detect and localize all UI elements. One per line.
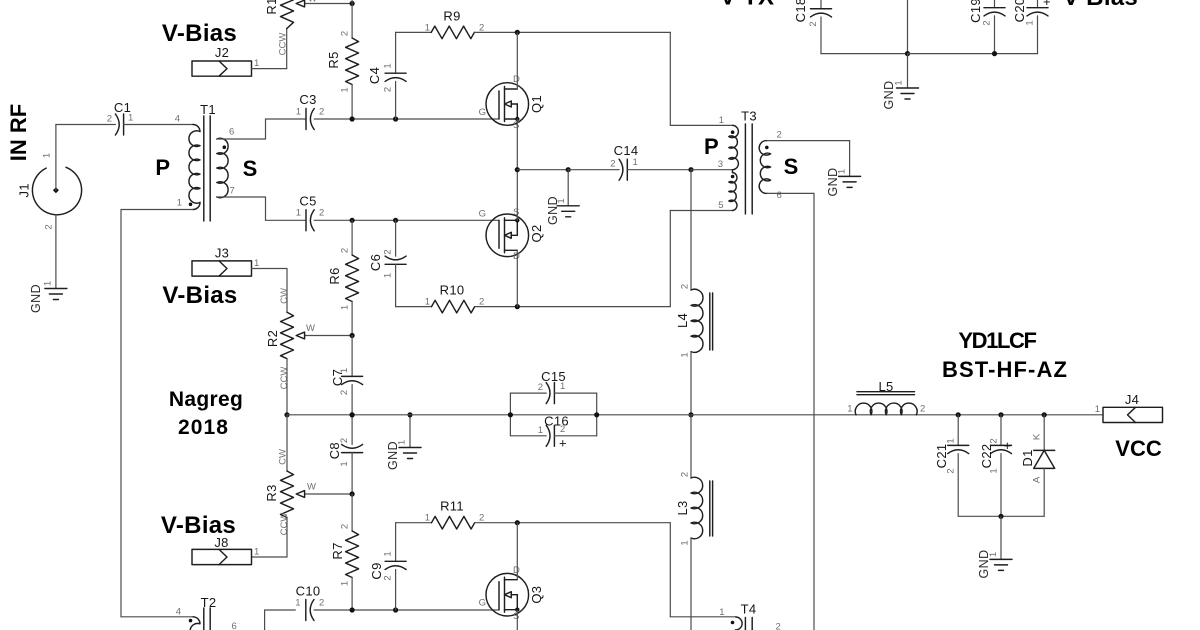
svg-text:Q2: Q2 [529,225,544,243]
wire V-TX rail [907,0,909,54]
diode D1 [1043,415,1045,451]
svg-text:Q3: Q3 [529,586,544,604]
svg-text:C8: C8 [327,442,342,459]
svg-text:+: + [559,436,567,451]
capacitor C5 [305,210,307,231]
svg-text:1: 1 [128,113,133,124]
svg-text:1: 1 [680,540,691,545]
wire T1 pin6 to C3 row [217,138,266,140]
svg-text:3: 3 [718,159,723,170]
wire T3 pin5 [670,210,732,212]
transistor Q2 (N-MOSFET, mirrored) [486,214,529,257]
svg-text:D: D [513,565,520,576]
svg-text:1: 1 [383,273,394,278]
svg-text:C3: C3 [299,92,316,107]
svg-text:2: 2 [777,130,782,141]
node C4/gate row [393,116,398,121]
svg-text:S: S [784,154,799,179]
transformer T1 primary [193,125,200,132]
svg-text:7: 7 [230,186,235,197]
svg-text:+: + [1004,438,1012,453]
wire left column down to T2 [120,210,122,617]
wire R11 row to T4 pin1 [669,523,671,617]
transformer T3 secondary [759,141,770,194]
svg-text:6: 6 [232,621,237,630]
capacitor C22 [1000,415,1002,446]
svg-text:R1: R1 [264,0,279,15]
svg-text:1: 1 [383,63,394,68]
svg-text:2: 2 [340,524,351,529]
node GND tap at bus [407,412,412,417]
svg-text:6: 6 [777,190,782,201]
transformer T1 core [203,116,205,221]
node D1 at bus [1042,412,1047,417]
svg-text:R5: R5 [326,51,341,68]
svg-text:IN RF: IN RF [6,104,31,161]
transformer T3 primary winding A [729,125,739,169]
ground GND at T3 secondary [839,175,861,177]
node R11 / Q3 drain [515,520,520,525]
svg-text:S: S [513,207,519,218]
node C19 at top bus [992,51,997,56]
wiper of R3 [305,493,352,495]
transistor Q3 (N-MOSFET) [486,573,529,616]
wire Q2 source to C14 node [516,170,518,221]
svg-text:2018: 2018 [178,416,229,439]
svg-text:R11: R11 [440,499,464,514]
wire T3 pin6 to T4 secondary [767,192,814,194]
svg-text:T1: T1 [200,102,216,117]
resistor R11 [396,522,432,524]
svg-text:D: D [513,74,520,85]
resistor R10 [396,306,432,308]
wire C14 to T3 pin3 [627,169,691,171]
node R10 / Q2 drain [515,304,520,309]
svg-text:T3: T3 [741,109,757,124]
svg-text:1: 1 [988,552,999,557]
svg-text:2: 2 [479,23,484,34]
svg-text:V-TX: V-TX [720,0,775,11]
svg-text:4: 4 [175,114,180,125]
potentiometer R1 (cropped) [281,0,294,29]
wire center tap down to L4 [690,170,692,290]
svg-text:J3: J3 [215,246,229,261]
svg-text:1: 1 [425,513,430,524]
svg-text:J8: J8 [214,535,228,550]
svg-text:GND: GND [29,284,43,313]
ground GND at J1 [45,288,67,290]
wiper of R1 [305,3,352,5]
svg-text:C22: C22 [979,444,994,469]
svg-text:2: 2 [989,438,1000,443]
svg-text:1: 1 [340,581,351,586]
svg-text:1: 1 [254,258,259,269]
svg-text:C20: C20 [1012,0,1027,22]
node C15-C16 left [508,412,513,417]
svg-text:S: S [243,156,258,181]
node L4/L3 at bus [688,412,693,417]
svg-text:2: 2 [319,107,324,118]
svg-text:C18: C18 [793,0,808,22]
svg-text:2: 2 [383,575,394,580]
svg-text:G: G [479,598,486,609]
inductor L4 [691,289,703,352]
node C6/gate row [393,218,398,223]
node C15-C16 right [594,412,599,417]
svg-text:2: 2 [610,159,615,170]
node R1 wiper / R5 top [350,1,355,6]
svg-text:C21: C21 [934,444,949,469]
transistor Q1 (N-MOSFET) [486,83,529,126]
svg-text:C10: C10 [296,584,321,599]
resistor R6 [351,220,353,255]
svg-text:2: 2 [808,21,819,26]
node R7/C10 [350,607,355,612]
transformer T1 secondary [217,138,228,197]
svg-text:2: 2 [680,472,691,477]
svg-text:2: 2 [920,404,925,415]
resistor R5 [351,4,353,39]
wire J1 pin1 to C1 [55,125,57,191]
svg-text:1: 1 [538,425,543,436]
wire midpoint to C14 [517,169,568,171]
svg-text:1: 1 [295,598,300,609]
svg-text:1: 1 [42,153,53,158]
svg-text:S: S [513,611,519,622]
svg-text:1: 1 [296,208,301,219]
svg-text:CW: CW [279,288,290,304]
svg-text:1: 1 [837,169,848,174]
svg-text:Q1: Q1 [529,95,544,113]
svg-text:2: 2 [339,390,350,395]
node C5/R6 [350,218,355,223]
capacitor C21 [957,415,959,446]
svg-text:1: 1 [946,438,957,443]
svg-text:1: 1 [254,547,259,558]
svg-text:2: 2 [560,424,565,435]
wire top bus right [908,53,1038,55]
svg-text:C19: C19 [968,0,983,23]
svg-text:1: 1 [397,440,408,445]
wire T3 pin2 to ground [767,140,850,142]
potentiometer R3 [286,415,288,471]
svg-text:2: 2 [680,284,691,289]
svg-text:2: 2 [340,31,351,36]
svg-text:G: G [479,107,486,118]
connector J1 (BNC) [32,167,81,214]
connector J4 [1103,407,1163,422]
inductor L3 [691,477,703,539]
svg-text:K: K [1032,433,1043,440]
svg-text:Nagreg: Nagreg [169,388,243,411]
svg-text:2: 2 [946,468,957,473]
capacitor C6 [395,220,397,256]
capacitor C20 [1037,0,1039,8]
svg-text:L3: L3 [675,500,690,515]
capacitor C14 [626,159,628,180]
wire C5 to Q2 gate [314,219,499,221]
svg-text:2: 2 [339,438,350,443]
capacitor C10 [264,610,266,630]
svg-text:2: 2 [982,20,993,25]
wire L4 to bus [690,352,692,415]
connector J8 [192,549,252,564]
node C8 / R3 wiper / R7 [350,491,355,496]
wire R2 bottom to bus [286,359,288,415]
svg-text:V-Bias: V-Bias [162,20,237,47]
transformer T3 core [744,124,746,214]
svg-text:1: 1 [43,281,54,286]
svg-text:W: W [308,0,317,5]
svg-text:1: 1 [425,297,430,308]
svg-text:G: G [479,209,486,220]
svg-text:2: 2 [319,598,324,609]
svg-text:1: 1 [296,107,301,118]
svg-text:1: 1 [425,23,430,34]
potentiometer R2 [281,312,294,359]
svg-text:1: 1 [254,58,259,69]
capacitor C16 [510,435,546,437]
svg-text:1: 1 [989,468,1000,473]
ground GND at bus [409,415,411,448]
wire J3 pin1 to R2 [252,268,288,270]
inductor L5 [855,403,917,415]
connector J3 [192,261,252,276]
svg-text:C5: C5 [299,194,316,209]
wire J1 pin2 to ground [55,215,57,289]
wiper of R2 [305,335,352,337]
svg-text:1: 1 [339,368,350,373]
ground GND at C22 [990,558,1012,560]
svg-text:R10: R10 [440,283,465,298]
wire C21-C22-D1 bottom [958,515,1044,517]
svg-text:V-Bias: V-Bias [162,282,237,309]
svg-text:1: 1 [340,305,351,310]
svg-text:1: 1 [894,80,905,85]
wire main VCC bus [287,414,1103,416]
transformer T4 (cropped) [736,617,743,630]
svg-text:1: 1 [1095,404,1100,415]
wire T1 pin7 to C5 row [217,196,266,198]
svg-text:S: S [513,120,519,131]
node C21 at bus [956,412,961,417]
node R2/R3 at bus [284,412,289,417]
svg-text:1: 1 [680,352,691,357]
svg-text:W: W [306,323,315,334]
svg-text:1: 1 [847,404,852,415]
svg-text:C4: C4 [367,67,382,84]
capacitor C15 (with C16 in parallel block) [509,393,511,436]
svg-text:CW: CW [278,449,289,465]
svg-text:T4: T4 [741,602,757,617]
node bottom wire to ground [998,514,1003,519]
capacitor C1 [56,124,116,126]
wire center tap to T3 pin3 [691,169,733,171]
svg-text:R9: R9 [443,9,460,24]
svg-text:1: 1 [719,607,724,618]
svg-text:2: 2 [319,208,324,219]
svg-text:2: 2 [479,297,484,308]
ground GND at top bus [907,54,909,88]
svg-text:C14: C14 [614,143,639,158]
svg-text:T2: T2 [201,595,217,610]
svg-text:J1: J1 [17,183,32,197]
wire Q3 source down [516,610,518,630]
svg-text:D1: D1 [1020,449,1035,466]
wire Q3 drain up [516,523,518,580]
node C22 at bus [998,412,1003,417]
svg-text:1: 1 [177,198,182,209]
svg-text:2: 2 [340,248,351,253]
svg-text:1: 1 [633,157,638,168]
svg-text:P: P [704,134,719,159]
ground GND at C14 node [567,170,569,206]
capacitor C9 [395,523,397,562]
svg-text:R2: R2 [265,330,280,347]
svg-text:R3: R3 [264,484,279,501]
wire bus to L3 [690,415,692,478]
wire C3 to Q1 gate [314,118,499,120]
transformer T2 (cropped) [121,616,193,618]
resistor R9 [396,31,432,33]
wire R3 bottom to J8 [286,518,288,558]
svg-text:2: 2 [44,224,55,229]
svg-text:L4: L4 [675,313,690,328]
svg-text:BST-HF-AZ: BST-HF-AZ [942,357,1068,382]
capacitor C3 [305,109,307,130]
svg-text:J2: J2 [215,45,229,60]
svg-text:CCW: CCW [279,513,290,536]
wire R10 right riser to T3 pin5 [669,211,671,307]
resistor R7 [351,494,353,531]
node C7 at bus [350,412,355,417]
svg-text:1: 1 [340,87,351,92]
svg-text:D: D [513,251,520,262]
node bus/C7-C8 [350,412,355,417]
svg-text:VCC: VCC [1115,436,1162,461]
svg-text:L5: L5 [878,379,893,394]
node R5/C3 [350,116,355,121]
transformer T3 primary winding B [732,170,734,173]
svg-text:+: + [1043,0,1051,9]
svg-text:1: 1 [719,115,724,126]
svg-text:4: 4 [176,607,181,618]
svg-text:2: 2 [383,249,394,254]
svg-text:1: 1 [383,551,394,556]
svg-text:CCW: CCW [279,367,290,390]
wire Q1 drain to top rail [516,32,518,89]
node R6 / R2 wiper / C7 [350,333,355,338]
svg-text:1: 1 [560,381,565,392]
svg-text:J4: J4 [1125,392,1139,407]
node Q1-Q2 midpoint [515,167,520,172]
node R9 / Q1 drain rail [515,30,520,35]
wire Q2 drain to R10 row [516,250,518,306]
wire T1 pin1 to left column [121,209,193,211]
svg-text:R7: R7 [330,542,345,559]
svg-text:YD1LCF: YD1LCF [958,328,1036,353]
svg-text:W: W [307,482,316,493]
svg-text:R6: R6 [327,267,342,284]
svg-text:1: 1 [339,461,350,466]
node T3 center tap / L4 column [688,167,693,172]
capacitor C18 [820,0,822,9]
svg-text:5: 5 [718,200,723,211]
svg-text:A: A [1032,476,1043,483]
svg-text:2: 2 [383,87,394,92]
wire top rail to T3 pin1 [669,32,671,125]
wire J2 pin1 to R1 [252,68,287,70]
svg-text:2: 2 [538,382,543,393]
capacitor C19 [994,0,996,8]
capacitor C8 [351,415,353,445]
svg-text:C6: C6 [368,254,383,271]
svg-text:P: P [155,155,170,180]
capacitor C4 [395,32,397,73]
node top bus / ground tap [905,51,910,56]
wire Q1 source down [516,119,518,170]
node C9/gate row Q3 [393,607,398,612]
svg-text:1: 1 [1025,20,1036,25]
svg-text:V-Bias: V-Bias [1063,0,1138,11]
svg-text:1: 1 [556,198,567,203]
capacitor C7 [351,336,353,377]
svg-text:CCW: CCW [278,33,289,56]
wire L3 down to T4 [690,538,692,630]
connector J2 [192,61,252,76]
svg-text:6: 6 [229,127,234,138]
svg-text:2: 2 [479,513,484,524]
svg-text:2: 2 [107,114,112,125]
svg-text:2: 2 [776,622,781,630]
